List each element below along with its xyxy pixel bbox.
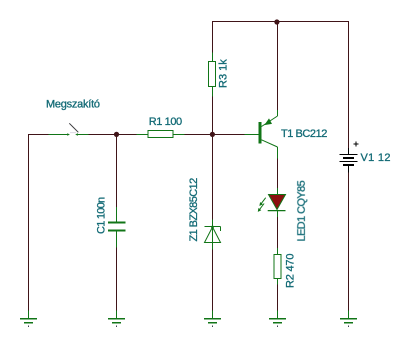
svg-text:Megszakító: Megszakító (46, 99, 100, 111)
junction node base (210, 132, 215, 137)
resistor R3 (209, 53, 216, 97)
LED LED1 (258, 188, 286, 217)
zener diode Z1 (205, 226, 221, 250)
ground V1 (340, 311, 357, 327)
junction top rail node (274, 19, 279, 24)
resistor R1 (137, 131, 185, 138)
wire node to C1 (116, 135, 118, 208)
capacitor C1 (108, 207, 126, 248)
svg-text:R3 1k: R3 1k (218, 59, 230, 88)
svg-text:T1 BC212: T1 BC212 (281, 128, 327, 140)
svg-text:R2 470: R2 470 (285, 254, 297, 288)
wire battery to ground (348, 173, 350, 311)
wire corner to switch (29, 134, 49, 136)
svg-text:C1 100n: C1 100n (96, 197, 108, 234)
wire emitter to rail (277, 22, 279, 110)
wire collector to LED (277, 159, 279, 189)
svg-text:LED1 CQY85: LED1 CQY85 (296, 180, 308, 241)
wire top rail (212, 21, 349, 23)
transistor T1 (245, 110, 278, 159)
ground R2 (269, 311, 286, 327)
wire left vertical drop (28, 134, 30, 311)
svg-text:V1 12: V1 12 (361, 152, 391, 164)
wire R1 to node (185, 134, 245, 136)
wire LED to R2 (277, 217, 279, 248)
wire node to Z1 (212, 135, 214, 227)
resistor R2 (274, 248, 281, 285)
wire Z1 to ground (212, 250, 214, 311)
wire rail to R3 (212, 22, 214, 53)
svg-text:R1 100: R1 100 (149, 116, 182, 128)
wire rail to battery (348, 22, 350, 149)
wire switch to R1 (89, 134, 137, 136)
wire R3 to base node (212, 97, 214, 135)
battery V1 (340, 141, 359, 172)
ground Z1 (204, 311, 221, 327)
svg-text:Z1 BZX85C12: Z1 BZX85C12 (188, 178, 200, 242)
ground left (20, 311, 37, 327)
wire C1 to ground (116, 248, 118, 311)
junction node C1 (114, 132, 119, 137)
ground C1 (108, 311, 125, 327)
wire R2 to ground (277, 285, 279, 311)
switch Megszakító (49, 123, 89, 136)
